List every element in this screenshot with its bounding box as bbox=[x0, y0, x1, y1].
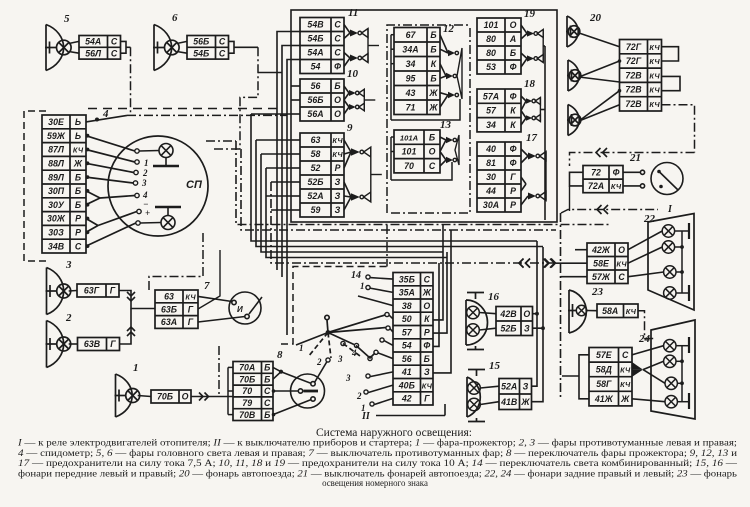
svg-text:КЧ: КЧ bbox=[626, 307, 637, 316]
svg-text:Ж: Ж bbox=[422, 288, 432, 298]
svg-text:17 — предохранители на силу то: 17 — предохранители на силу тока 7,5 А; … bbox=[18, 458, 737, 468]
svg-text:59: 59 bbox=[311, 205, 321, 215]
dashed feed line to speedometer bbox=[88, 108, 282, 110]
lamp 16 bulb upper bbox=[467, 306, 480, 319]
svg-text:44: 44 bbox=[485, 186, 496, 196]
svg-text:70Б: 70Б bbox=[239, 374, 255, 384]
plug contacts of block 17 bbox=[521, 149, 546, 205]
speedometer СП bbox=[108, 136, 208, 236]
road-train lamp 20 lower bbox=[567, 105, 581, 136]
lamp 16 bulb lower bbox=[467, 324, 480, 337]
svg-text:71: 71 bbox=[406, 102, 416, 112]
dash-dot feed above switch 7 bbox=[149, 232, 203, 290]
svg-text:52Б: 52Б bbox=[500, 323, 516, 333]
svg-text:С: С bbox=[264, 398, 271, 408]
svg-text:Ф: Ф bbox=[334, 62, 341, 72]
svg-text:54Б: 54Б bbox=[307, 34, 323, 44]
svg-text:О: О bbox=[523, 309, 530, 319]
svg-text:57Ж: 57Ж bbox=[592, 272, 611, 282]
connector block 14 of combined light switch bbox=[351, 270, 433, 405]
svg-text:34: 34 bbox=[486, 120, 496, 130]
svg-text:63В: 63В bbox=[84, 339, 101, 349]
svg-text:18: 18 bbox=[524, 78, 536, 90]
svg-text:80: 80 bbox=[486, 48, 496, 58]
svg-text:54В: 54В bbox=[307, 20, 324, 30]
svg-text:40: 40 bbox=[485, 144, 496, 154]
svg-text:З: З bbox=[335, 191, 341, 201]
svg-text:С: С bbox=[75, 241, 82, 251]
svg-text:КЧ: КЧ bbox=[611, 182, 622, 191]
svg-text:54Б: 54Б bbox=[193, 48, 209, 58]
dash-dot bus feeds bbox=[206, 140, 236, 142]
bulbs of cluster 24 bbox=[664, 340, 678, 408]
svg-text:2: 2 bbox=[65, 312, 72, 324]
wires connector 16 to bus bbox=[533, 241, 544, 328]
wire lamp23 to connector bbox=[587, 310, 597, 312]
wire 30Е bbox=[86, 115, 127, 122]
svg-text:59Ж: 59Ж bbox=[47, 131, 66, 141]
svg-text:14: 14 bbox=[351, 270, 361, 281]
svg-text:57: 57 bbox=[402, 327, 413, 337]
svg-text:КЧ: КЧ bbox=[332, 150, 343, 159]
svg-text:1: 1 bbox=[360, 281, 365, 291]
fuse output rail bbox=[540, 46, 546, 220]
fuse sub-panel dash-dot enclosure bbox=[389, 28, 470, 213]
wires connector 22 to cluster bbox=[628, 231, 664, 277]
svg-text:Г: Г bbox=[188, 317, 194, 327]
svg-text:Г: Г bbox=[110, 339, 116, 349]
svg-text:Б: Б bbox=[264, 374, 270, 384]
svg-text:КЧ: КЧ bbox=[616, 259, 627, 268]
wire bundle from fuse panel to switches bbox=[236, 32, 610, 336]
wires lamps 20 to connector bbox=[579, 33, 620, 121]
svg-text:54А: 54А bbox=[85, 37, 101, 47]
lamp 15 bulb upper bbox=[468, 382, 481, 395]
svg-text:42: 42 bbox=[401, 394, 412, 404]
svg-text:8: 8 bbox=[277, 349, 283, 361]
svg-text:С: С bbox=[334, 20, 341, 30]
svg-text:КЧ: КЧ bbox=[73, 146, 84, 155]
svg-text:42В: 42В bbox=[499, 309, 517, 319]
front lamp 15 housing bbox=[467, 370, 485, 422]
svg-text:63: 63 bbox=[311, 135, 321, 145]
bracket rows 1-2 of block 20 bbox=[662, 47, 679, 61]
bulbs of cluster 22 bbox=[662, 225, 676, 299]
svg-text:70А: 70А bbox=[239, 363, 255, 373]
svg-text:10: 10 bbox=[347, 68, 359, 80]
svg-text:Р: Р bbox=[510, 186, 516, 196]
svg-text:57: 57 bbox=[486, 106, 497, 116]
svg-text:Ф: Ф bbox=[510, 144, 517, 154]
svg-text:КЧ: КЧ bbox=[649, 43, 660, 52]
feed wires of connector 24 bbox=[562, 355, 589, 399]
wires lamp16 to connector bbox=[479, 313, 496, 314]
svg-text:Ь: Ь bbox=[75, 131, 81, 141]
svg-text:КЧ: КЧ bbox=[620, 380, 631, 389]
road-train switch block 21: 72-Ф / 72А-КЧ bbox=[583, 152, 641, 193]
svg-text:41: 41 bbox=[401, 367, 412, 377]
svg-text:52А: 52А bbox=[307, 191, 323, 201]
svg-text:С: С bbox=[429, 161, 436, 171]
connector of lamp 23: 58А-КЧ bbox=[597, 304, 638, 318]
svg-text:4 — спидометр; 5, 6 — фары г: 4 — спидометр; 5, 6 — фары головного све… bbox=[18, 448, 737, 458]
svg-text:З: З bbox=[335, 177, 341, 187]
svg-text:Ж: Ж bbox=[520, 397, 530, 407]
svg-text:К: К bbox=[431, 59, 437, 69]
svg-text:22: 22 bbox=[643, 213, 656, 225]
searchlight lamp 1 bbox=[115, 362, 152, 417]
svg-text:С: С bbox=[622, 350, 629, 360]
svg-text:2: 2 bbox=[356, 391, 362, 401]
svg-text:КЧ: КЧ bbox=[649, 86, 660, 95]
svg-text:80: 80 bbox=[486, 34, 496, 44]
svg-text:30З: 30З bbox=[48, 228, 64, 238]
svg-text:II: II bbox=[361, 411, 371, 422]
wire lamp3 to switch block 7 bbox=[119, 291, 155, 309]
svg-text:С: С bbox=[424, 274, 431, 284]
svg-text:21: 21 bbox=[629, 152, 641, 164]
svg-text:Г: Г bbox=[188, 304, 194, 314]
left bracket of block 12 bbox=[391, 35, 460, 120]
svg-text:16: 16 bbox=[488, 291, 500, 303]
feed wire of block 20 bbox=[662, 105, 695, 153]
svg-text:Б: Б bbox=[430, 44, 436, 54]
connector block 7: 63 63Б 63А bbox=[155, 280, 210, 328]
arrows on rear-lamp bus bbox=[519, 259, 556, 268]
svg-text:34: 34 bbox=[406, 59, 416, 69]
wire lamp1 to switch 8 bbox=[191, 393, 233, 401]
svg-text:35Б: 35Б bbox=[399, 274, 415, 284]
svg-text:К: К bbox=[424, 314, 430, 324]
svg-text:Б: Б bbox=[510, 48, 516, 58]
dashed bracket on block 4 bbox=[24, 111, 46, 261]
svg-text:34А: 34А bbox=[402, 44, 418, 54]
fog lamp 2 bbox=[46, 312, 78, 368]
svg-text:Б: Б bbox=[264, 363, 270, 373]
svg-text:С: С bbox=[111, 37, 118, 47]
svg-text:57А: 57А bbox=[483, 91, 499, 101]
svg-text:53: 53 bbox=[486, 62, 496, 72]
svg-text:О: О bbox=[429, 147, 436, 157]
svg-text:88Л: 88Л bbox=[48, 159, 65, 169]
connector block of lamp 6: 56Б-С / 54Б-С bbox=[187, 36, 229, 60]
connector of lamp 1: 70Б-О bbox=[151, 390, 191, 403]
svg-text:56А: 56А bbox=[307, 109, 323, 119]
svg-text:С: С bbox=[334, 48, 341, 58]
connector block of lamp 20 bbox=[620, 40, 662, 112]
svg-text:КЧ: КЧ bbox=[620, 366, 631, 375]
svg-text:Р: Р bbox=[75, 228, 81, 238]
svg-text:О: О bbox=[510, 20, 517, 30]
svg-text:Ф: Ф bbox=[510, 91, 517, 101]
terminal II wire bbox=[361, 404, 445, 422]
svg-text:63: 63 bbox=[164, 292, 174, 302]
svg-text:Б: Б bbox=[424, 354, 430, 364]
svg-text:101А: 101А bbox=[400, 133, 418, 142]
svg-text:З: З bbox=[523, 381, 529, 391]
fog lamp switch 7 bbox=[229, 292, 262, 324]
svg-text:50: 50 bbox=[402, 314, 412, 324]
wire connector 23 onward bbox=[638, 311, 655, 339]
svg-text:58А: 58А bbox=[602, 306, 618, 316]
plug arrows of connector 24 bbox=[632, 362, 643, 370]
wire lamp2 to switch block 7 bbox=[120, 309, 136, 345]
svg-text:56Б: 56Б bbox=[193, 37, 209, 47]
lower illumination bulb in speedometer bbox=[155, 207, 181, 230]
svg-text:30У: 30У bbox=[48, 200, 65, 210]
svg-text:Г: Г bbox=[424, 394, 430, 404]
svg-text:КЧ: КЧ bbox=[649, 57, 660, 66]
connector block 8 of searchlight switch bbox=[233, 349, 283, 421]
arrows on bus to rear lamps bbox=[519, 259, 587, 268]
road-train lamp 20 middle bbox=[567, 60, 581, 91]
svg-text:Б: Б bbox=[75, 186, 81, 196]
svg-text:З: З bbox=[524, 323, 530, 333]
wires from block 4 to speedometer terminals bbox=[86, 136, 137, 246]
svg-text:101: 101 bbox=[402, 147, 417, 157]
licence plate lamp 23 bbox=[568, 286, 604, 333]
svg-text:13: 13 bbox=[440, 119, 452, 131]
svg-text:30: 30 bbox=[486, 172, 496, 182]
svg-text:+: + bbox=[145, 208, 150, 218]
svg-text:95: 95 bbox=[406, 73, 416, 83]
svg-text:3: 3 bbox=[141, 178, 147, 188]
svg-text:56Л: 56Л bbox=[85, 48, 102, 58]
svg-text:40Б: 40Б bbox=[398, 380, 415, 390]
fuse block 12: 67 34А 34 95 43 71 bbox=[394, 23, 455, 115]
svg-text:87Л: 87Л bbox=[48, 145, 65, 155]
connector of lamp 2: 63В-Г bbox=[78, 338, 120, 351]
svg-text:Ф: Ф bbox=[510, 158, 517, 168]
svg-text:1: 1 bbox=[144, 158, 149, 168]
svg-text:101: 101 bbox=[484, 20, 499, 30]
svg-text:54: 54 bbox=[311, 62, 321, 72]
fuse panel outer box bbox=[291, 10, 557, 222]
svg-text:11: 11 bbox=[348, 7, 358, 19]
lamp 15 bulb lower bbox=[468, 398, 481, 411]
headlamp 6 (right headlight) bbox=[153, 12, 187, 71]
svg-text:56: 56 bbox=[402, 354, 412, 364]
connector block 4 of speedometer bbox=[42, 108, 109, 253]
svg-text:С: С bbox=[219, 48, 226, 58]
connector of lamp 3: 63Г-Г bbox=[77, 284, 119, 297]
svg-text:56Б: 56Б bbox=[307, 95, 323, 105]
contacts of switch 14 bbox=[364, 275, 393, 406]
svg-text:52Б: 52Б bbox=[307, 177, 323, 187]
wire from lamp 5 block to fuse box bbox=[121, 41, 127, 53]
svg-text:15: 15 bbox=[489, 360, 501, 372]
speedometer terminals 1 2 3 4 - + bbox=[133, 149, 150, 225]
svg-text:З: З bbox=[335, 205, 341, 215]
fuse block 13: 101А 101 70 bbox=[394, 119, 452, 173]
connector block of lamp 5: 54А-С / 56Л-С bbox=[79, 36, 121, 60]
svg-text:89Л: 89Л bbox=[48, 172, 65, 182]
left bracket of block 8 bbox=[228, 367, 233, 414]
rear lamp cluster 24 bbox=[651, 320, 695, 419]
svg-text:79: 79 bbox=[242, 398, 252, 408]
svg-text:52: 52 bbox=[311, 163, 321, 173]
svg-text:Р: Р bbox=[510, 200, 516, 210]
svg-text:7: 7 bbox=[204, 280, 210, 292]
dash-dot wire to terminal I upper bbox=[570, 148, 695, 166]
svg-text:41В: 41В bbox=[500, 397, 518, 407]
svg-text:52А: 52А bbox=[501, 381, 517, 391]
svg-text:72В: 72В bbox=[625, 85, 642, 95]
svg-text:С: С bbox=[264, 386, 271, 396]
svg-text:освещения номерного знака: освещения номерного знака bbox=[322, 478, 428, 488]
svg-text:1: 1 bbox=[299, 343, 304, 353]
svg-text:КЧ: КЧ bbox=[649, 100, 660, 109]
dash-dot feed to block 8 bbox=[218, 346, 220, 397]
svg-text:Б: Б bbox=[264, 410, 270, 420]
fuse block 10: 56 56Б 56А bbox=[300, 68, 359, 121]
svg-text:СП: СП bbox=[186, 179, 203, 191]
svg-text:57Е: 57Е bbox=[596, 350, 613, 360]
svg-text:4: 4 bbox=[351, 348, 357, 358]
wires into fuse panel bbox=[291, 32, 300, 211]
svg-text:Г: Г bbox=[510, 172, 516, 182]
svg-text:Г: Г bbox=[110, 286, 116, 296]
svg-text:Б: Б bbox=[75, 172, 81, 182]
wires connector 15 to bus bbox=[532, 314, 544, 402]
svg-text:9: 9 bbox=[347, 122, 353, 134]
fuse block 11: 54В 54Б 54А 54 bbox=[300, 7, 358, 74]
svg-text:Р: Р bbox=[335, 163, 341, 173]
svg-text:30А: 30А bbox=[483, 200, 499, 210]
svg-text:С: С bbox=[334, 34, 341, 44]
svg-text:фонари передние левый и правый: фонари передние левый и правый; 20 — фон… bbox=[18, 468, 737, 478]
fuse panel inner dash-dot partition bbox=[387, 25, 470, 213]
svg-text:70Б: 70Б bbox=[157, 392, 173, 402]
road-train lamp 20 upper bbox=[566, 12, 602, 47]
svg-text:6: 6 bbox=[172, 12, 178, 24]
svg-text:2: 2 bbox=[316, 357, 322, 367]
plug contacts of block 10 bbox=[344, 86, 375, 114]
bus wires in cluster 24 bbox=[676, 337, 689, 409]
wire to row 38 bbox=[358, 296, 393, 306]
svg-text:Р: Р bbox=[424, 327, 430, 337]
svg-text:63Г: 63Г bbox=[84, 286, 100, 296]
svg-text:35А: 35А bbox=[399, 288, 415, 298]
plug contacts of block 13 bbox=[440, 135, 459, 166]
svg-text:Б: Б bbox=[334, 81, 340, 91]
svg-text:72Г: 72Г bbox=[626, 42, 642, 52]
svg-text:З: З bbox=[424, 367, 430, 377]
fuse block 19: 101 80 80 53 bbox=[477, 8, 536, 74]
svg-text:Б: Б bbox=[430, 73, 436, 83]
fog lamp 3 bbox=[46, 259, 78, 315]
svg-text:24: 24 bbox=[638, 333, 651, 345]
svg-text:КЧ: КЧ bbox=[422, 381, 433, 390]
svg-text:Р: Р bbox=[75, 214, 81, 224]
svg-text:30Е: 30Е bbox=[48, 117, 65, 127]
plug contacts of block 9 bbox=[344, 140, 382, 210]
svg-text:70В: 70В bbox=[239, 410, 256, 420]
lever of switch 14 bbox=[296, 315, 386, 358]
svg-text:Б: Б bbox=[429, 132, 435, 142]
svg-text:20: 20 bbox=[589, 12, 602, 24]
rear lamp connector 22: 42Ж 58Е 57Ж bbox=[587, 213, 656, 284]
svg-text:Ф: Ф bbox=[510, 62, 517, 72]
svg-text:23: 23 bbox=[591, 286, 604, 298]
wires block7 to switch 7 bbox=[198, 296, 232, 301]
svg-text:72Г: 72Г bbox=[626, 56, 642, 66]
bus wires in cluster 22 bbox=[675, 223, 689, 301]
svg-text:30Ж: 30Ж bbox=[47, 214, 66, 224]
svg-text:Ь: Ь bbox=[75, 117, 81, 127]
svg-text:О: О bbox=[334, 109, 341, 119]
svg-text:30П: 30П bbox=[48, 186, 65, 196]
mid contacts of switch 14 bbox=[341, 341, 345, 345]
svg-text:42Ж: 42Ж bbox=[591, 245, 611, 255]
wires block 8 to switch 8 bbox=[273, 362, 327, 415]
svg-text:43: 43 bbox=[405, 88, 416, 98]
wire from lamp 6 block bbox=[229, 41, 235, 53]
svg-text:19: 19 bbox=[524, 8, 536, 20]
dash-dot line 30Е to panel bbox=[127, 114, 287, 116]
svg-text:3: 3 bbox=[337, 354, 343, 364]
plug contacts of block 12 bbox=[440, 35, 462, 108]
svg-text:А: А bbox=[509, 34, 516, 44]
feed wires of connector 22 bbox=[556, 213, 587, 399]
svg-text:КЧ: КЧ bbox=[649, 71, 660, 80]
svg-text:58Е: 58Е bbox=[593, 258, 610, 268]
left bracket of block 13 bbox=[391, 137, 452, 180]
svg-text:58: 58 bbox=[311, 149, 321, 159]
svg-text:81: 81 bbox=[486, 158, 496, 168]
svg-text:38: 38 bbox=[402, 301, 412, 311]
svg-text:63Б: 63Б bbox=[161, 304, 177, 314]
feed wire to block 7 bbox=[198, 250, 220, 309]
svg-text:О: О bbox=[618, 245, 625, 255]
svg-text:Б: Б bbox=[75, 200, 81, 210]
svg-text:72: 72 bbox=[591, 168, 601, 178]
fuse block 18: 57А 57 34 bbox=[477, 78, 536, 132]
rear lamp connector 24: 57Е 58Д 58Г 41Ж bbox=[589, 333, 651, 406]
svg-text:С: С bbox=[111, 48, 118, 58]
svg-text:72В: 72В bbox=[625, 99, 642, 109]
svg-text:63А: 63А bbox=[161, 317, 177, 327]
svg-text:К: К bbox=[510, 120, 516, 130]
svg-text:54А: 54А bbox=[307, 48, 323, 58]
svg-text:17: 17 bbox=[526, 132, 538, 144]
svg-text:К: К bbox=[510, 106, 516, 116]
svg-text:Ж: Ж bbox=[428, 102, 438, 112]
svg-text:72В: 72В bbox=[625, 70, 642, 80]
wires connector 24 to cluster bbox=[632, 346, 665, 402]
bracket rows 3-4 of block 20 bbox=[662, 76, 681, 90]
svg-text:Ф: Ф bbox=[613, 168, 620, 178]
road-train switch 21 bbox=[623, 163, 683, 195]
bracket left of block 21 bbox=[570, 172, 584, 186]
wire from terminal to top bulb bbox=[139, 150, 159, 153]
svg-text:70: 70 bbox=[404, 161, 414, 171]
wires right of block 14 bbox=[433, 224, 451, 373]
svg-text:Ж: Ж bbox=[73, 159, 83, 169]
svg-text:Ж: Ж bbox=[428, 88, 438, 98]
svg-text:67: 67 bbox=[406, 30, 417, 40]
wire from terminal to bottom bulb bbox=[140, 222, 161, 225]
legend text bbox=[17, 438, 738, 489]
svg-text:72А: 72А bbox=[588, 181, 604, 191]
plug contacts of block 18 bbox=[521, 96, 540, 125]
svg-text:3: 3 bbox=[65, 259, 72, 271]
svg-text:КЧ: КЧ bbox=[332, 136, 343, 145]
svg-text:1: 1 bbox=[133, 362, 139, 374]
svg-text:70: 70 bbox=[242, 386, 252, 396]
svg-text:5: 5 bbox=[64, 13, 70, 25]
svg-text:КЧ: КЧ bbox=[185, 293, 196, 302]
